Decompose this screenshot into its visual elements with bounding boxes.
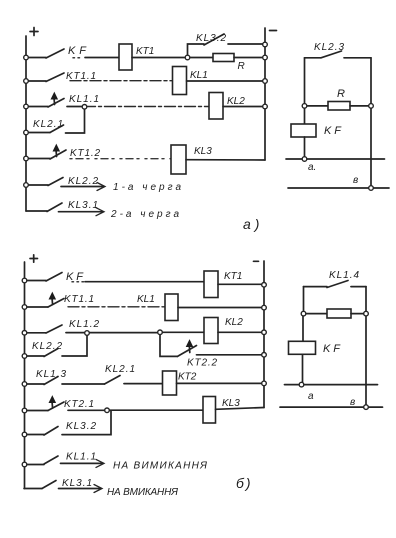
svg-text:KT2.2: KT2.2 [187, 358, 217, 369]
svg-text:в: в [350, 397, 355, 408]
svg-text:НА ВИМИКАННЯ: НА ВИМИКАННЯ [113, 461, 207, 472]
svg-text:2-а черга: 2-а черга [110, 209, 179, 220]
svg-text:НА ВМИКАННЯ: НА ВМИКАННЯ [107, 487, 178, 498]
svg-text:KL1.1: KL1.1 [69, 94, 99, 105]
svg-text:в: в [353, 175, 358, 186]
svg-text:KT1: KT1 [224, 271, 242, 282]
svg-text:KL1: KL1 [137, 294, 155, 305]
svg-text:R: R [238, 61, 245, 72]
svg-text:KT1.2: KT1.2 [70, 148, 100, 159]
svg-text:KL1.2: KL1.2 [69, 319, 99, 330]
svg-text:KT1.1: KT1.1 [64, 294, 94, 305]
svg-text:KL2: KL2 [225, 317, 243, 328]
svg-text:KL3.1: KL3.1 [68, 200, 98, 211]
svg-text:KL1.4: KL1.4 [329, 270, 359, 281]
svg-text:KL1.3: KL1.3 [36, 369, 66, 380]
svg-text:KL2.3: KL2.3 [314, 42, 344, 53]
svg-text:KT1.1: KT1.1 [66, 71, 96, 82]
svg-text:а): а) [243, 216, 263, 232]
svg-text:KT2: KT2 [178, 372, 197, 383]
svg-text:KL2.2: KL2.2 [32, 341, 62, 352]
svg-text:KL3: KL3 [222, 398, 240, 409]
svg-text:KT1: KT1 [136, 46, 154, 57]
svg-text:б): б) [236, 475, 253, 491]
svg-text:а.: а. [308, 162, 316, 173]
svg-text:KL2.1: KL2.1 [33, 119, 63, 130]
svg-text:KT2.1: KT2.1 [64, 399, 94, 410]
svg-text:KL3.1: KL3.1 [62, 478, 92, 489]
svg-text:KL3.2: KL3.2 [66, 421, 96, 432]
svg-text:KL2.2: KL2.2 [68, 176, 98, 187]
svg-text:а: а [308, 391, 314, 402]
svg-text:KL1: KL1 [190, 70, 208, 81]
svg-text:1-а черга: 1-а черга [113, 182, 181, 193]
svg-text:KL1.1: KL1.1 [66, 452, 96, 463]
svg-text:KL2.1: KL2.1 [105, 364, 135, 375]
svg-text:KL3.2: KL3.2 [196, 33, 226, 44]
svg-text:R: R [337, 88, 345, 100]
svg-text:KL3: KL3 [194, 146, 212, 157]
svg-text:KL2: KL2 [227, 96, 245, 107]
